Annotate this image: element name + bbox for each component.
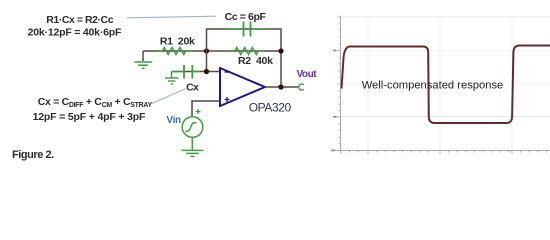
wire non-inverting input bbox=[192, 101, 220, 117]
tiny y tick labels bbox=[331, 50, 337, 152]
ground for Cx bbox=[171, 72, 173, 78]
callout line to Cc bbox=[127, 16, 216, 18]
callout line to Cx bbox=[152, 89, 186, 104]
svg-text:20k·12pF = 40k·6pF: 20k·12pF = 40k·6pF bbox=[28, 27, 122, 39]
wire inverting input y=71.5 bbox=[172, 51, 221, 72]
svg-text:Cx: Cx bbox=[186, 82, 199, 94]
ground for Vin bbox=[191, 137, 193, 150]
svg-text:OPA320: OPA320 bbox=[249, 100, 292, 114]
svg-text:R1·Cx = R2·Cc: R1·Cx = R2·Cc bbox=[46, 14, 113, 26]
capacitor Cc bbox=[228, 22, 265, 37]
resistor R1 bbox=[157, 48, 191, 55]
node junction A (206.5,51) bbox=[204, 48, 209, 53]
waveform curve: well-compensated square wave bbox=[342, 46, 550, 124]
plot x-axis bbox=[337, 150, 550, 152]
wire output bbox=[265, 86, 299, 88]
wire Cc branch top loop bbox=[207, 29, 282, 87]
plot horizontal gridlines minor bbox=[341, 51, 550, 84]
svg-text:R1 20k: R1 20k bbox=[160, 36, 195, 48]
svg-text:Vin: Vin bbox=[166, 115, 181, 126]
plot horizontal gridlines major bbox=[336, 17, 550, 117]
plot y-axis bbox=[340, 16, 342, 151]
svg-text:R2 40k: R2 40k bbox=[238, 55, 273, 67]
svg-text:Well-compensated response: Well-compensated response bbox=[362, 80, 504, 92]
ground left bbox=[142, 51, 144, 61]
svg-text:Cc = 6pF: Cc = 6pF bbox=[225, 11, 267, 23]
svg-text:Figure 2.: Figure 2. bbox=[12, 149, 54, 161]
wire inverting net horizontal y=51 bbox=[143, 50, 281, 52]
y-axis ticks bbox=[337, 17, 341, 144]
capacitor Cx bbox=[172, 65, 201, 79]
svg-text:Vout: Vout bbox=[296, 69, 317, 80]
plot vertical gridlines bbox=[368, 16, 512, 150]
node junction C (206.5,71.5) bbox=[204, 69, 209, 74]
svg-text:12pF = 5pF + 4pF + 3pF: 12pF = 5pF + 4pF + 3pF bbox=[33, 111, 146, 123]
resistor R2 bbox=[229, 48, 264, 55]
op-amp U1 bbox=[220, 68, 265, 106]
x-axis ticks bbox=[341, 151, 546, 155]
node junction D (281,87) bbox=[278, 84, 283, 89]
plus polarity mark bbox=[196, 109, 201, 114]
terminal Vout bbox=[299, 84, 304, 90]
source Vin bbox=[182, 117, 203, 138]
node junction B (281,51) bbox=[278, 48, 283, 53]
